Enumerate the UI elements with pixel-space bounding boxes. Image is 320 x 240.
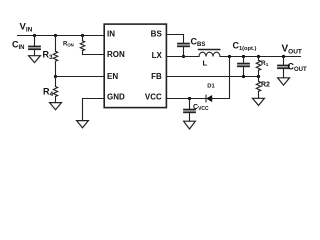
ground (R4) <box>50 103 62 110</box>
wire LX to inductor <box>166 56 199 58</box>
capacitor COUT <box>278 57 307 78</box>
node VIN <box>20 22 33 34</box>
svg-text:IN: IN <box>107 30 115 39</box>
junction CBS on LX wire <box>182 55 185 58</box>
junction R1 on VOUT rail <box>257 55 260 58</box>
resistor RON (on-time set) <box>63 36 105 55</box>
ground (CVCC) <box>184 121 196 129</box>
wire D1 to VOUT riser <box>212 57 230 99</box>
svg-text:RON: RON <box>107 50 125 59</box>
wire FB <box>166 76 258 78</box>
junction COUT on VOUT rail <box>282 55 285 58</box>
junction R3 on VIN rail <box>54 34 57 37</box>
ground (CIN) <box>29 56 41 63</box>
node VOUT <box>282 44 302 56</box>
svg-text:BS: BS <box>151 30 163 39</box>
junction CVCC on VCC wire <box>188 97 191 100</box>
wire VIN rail <box>18 35 105 37</box>
capacitor CVCC <box>184 99 209 122</box>
junction C1 on VOUT rail <box>242 55 245 58</box>
svg-text:D1: D1 <box>207 84 215 90</box>
diode D1 <box>206 84 215 102</box>
wire GND pin to ground <box>83 99 105 121</box>
resistor R2 <box>256 77 270 99</box>
svg-text:CVCC: CVCC <box>193 104 209 112</box>
junction D1 riser on VOUT rail <box>228 55 231 58</box>
inductor L <box>199 50 221 68</box>
svg-text:L: L <box>203 59 208 68</box>
wire VCC <box>166 98 206 100</box>
svg-text:LX: LX <box>152 51 163 60</box>
junction EN divider <box>54 75 57 78</box>
wire VOUT rail <box>220 56 301 58</box>
svg-text:FB: FB <box>151 72 162 81</box>
svg-text:RON: RON <box>63 41 74 47</box>
junction C1 on FB wire <box>242 75 245 78</box>
svg-text:EN: EN <box>107 72 118 81</box>
wire BS <box>166 35 183 43</box>
resistor R3 <box>43 36 58 77</box>
junction CIN on VIN rail <box>33 34 36 37</box>
capacitor CBS <box>178 37 205 57</box>
wire EN <box>56 76 105 78</box>
ground (R2) <box>253 98 265 105</box>
svg-text:R2: R2 <box>261 82 270 89</box>
resistor R4 <box>43 77 58 103</box>
junction R1/R2 on FB wire <box>257 75 260 78</box>
capacitor CIN <box>12 36 40 56</box>
ground (GND pin) <box>77 121 89 128</box>
capacitor C1 (opt.) feed-forward <box>233 40 257 76</box>
resistor R1 <box>256 57 268 77</box>
svg-text:GND: GND <box>107 93 125 102</box>
ground (COUT) <box>278 78 290 85</box>
svg-text:VCC: VCC <box>145 93 162 102</box>
junction RON on VIN rail <box>81 34 84 37</box>
IC U1 <box>104 24 166 108</box>
